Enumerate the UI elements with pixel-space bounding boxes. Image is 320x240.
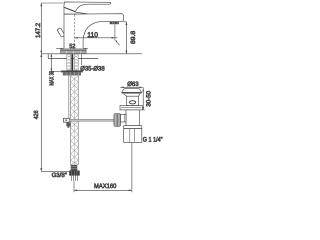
dome rim: [122, 92, 142, 94]
dim 30-50: [142, 87, 144, 110]
base plate: [61, 49, 87, 54]
svg-text:30-50: 30-50: [145, 90, 152, 106]
svg-text:89.8: 89.8: [130, 30, 137, 44]
svg-text:G 1 1/4": G 1 1/4": [143, 137, 163, 144]
deck bottom line: [48, 58, 98, 60]
deck left edge tick: [47, 54, 49, 59]
threaded shank right tail: [74, 54, 78, 70]
dim MAX160: [74, 142, 132, 192]
dim 426 vertical line: [40, 54, 69, 172]
waste upper body below flange: [126, 110, 139, 126]
svg-text:G3/8": G3/8": [52, 172, 67, 179]
hose end nut: [69, 171, 80, 176]
pop-up pull rod vertical: [68, 76, 70, 122]
dim 147.2 vertical line: [40, 3, 63, 54]
rod clamp: [64, 118, 70, 122]
deck top line: [41, 53, 142, 55]
popup waste plug dome: [122, 89, 142, 93]
label Ø35-Ø38 leader: [81, 54, 83, 65]
hose ferrule: [71, 165, 78, 171]
aerator: [110, 22, 119, 25]
svg-text:Ø63: Ø63: [127, 81, 139, 88]
waste neck: [123, 94, 140, 97]
dim 52 line: [56, 48, 88, 50]
horizontal linkage rod: [69, 119, 114, 121]
svg-text:110: 110: [87, 32, 98, 39]
waste slotted cylinder: [127, 96, 139, 105]
dim MAX39 vertical line: [50, 54, 64, 72]
linkage ball joint square: [121, 114, 126, 122]
faucet lever blade: [64, 2, 111, 12]
faucet body and spout outline: [64, 14, 123, 49]
svg-text:MAX160: MAX160: [94, 183, 117, 190]
linkage knurled nut: [114, 114, 121, 127]
waste tailpipe: [124, 129, 142, 143]
mounting washer: [61, 71, 83, 73]
rod joint lower: [66, 123, 70, 127]
dim 110 line: [74, 24, 119, 45]
svg-text:147.2: 147.2: [35, 22, 42, 38]
popup waste: dim Ø63: [120, 86, 142, 88]
waste lock nut: [124, 126, 142, 129]
central pull rod dark bar: [71, 54, 73, 75]
overflow slot: [130, 101, 136, 104]
faucet cartridge cap: [64, 7, 89, 14]
waste flange: [120, 106, 143, 110]
flexible hoses braided column: [71, 76, 79, 165]
faucet pull knob (tilted): [57, 28, 65, 38]
mounting nut: [63, 72, 81, 75]
dim 89.8 line: [123, 22, 127, 54]
svg-text:MAX 39: MAX 39: [49, 70, 56, 85]
hose outlet ticks: [71, 176, 77, 181]
threaded shank left tail: [67, 54, 71, 70]
svg-text:426: 426: [33, 110, 40, 119]
svg-text:Ø35-Ø38: Ø35-Ø38: [80, 65, 105, 72]
faucet centerline (dashed): [73, 15, 75, 48]
